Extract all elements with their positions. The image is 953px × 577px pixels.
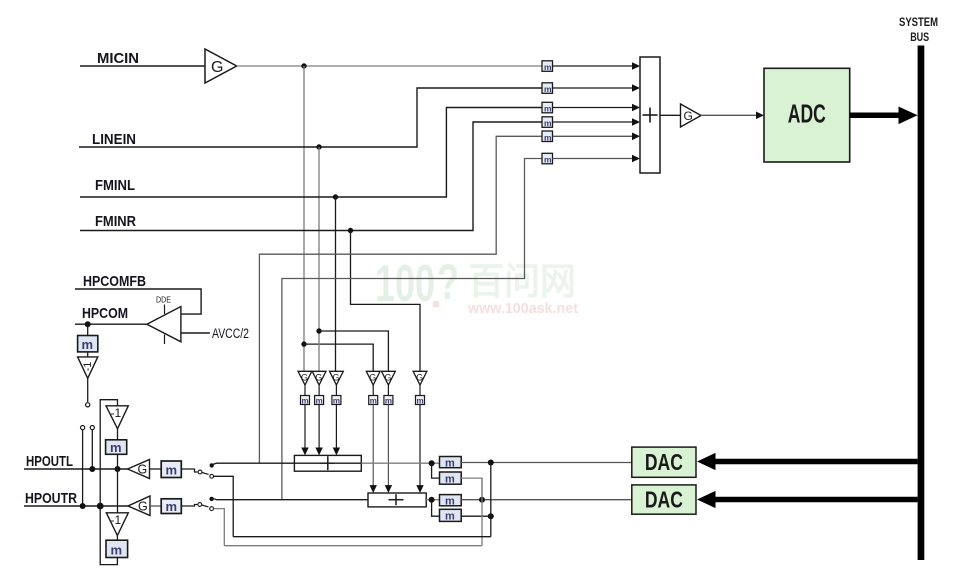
svg-text:m: m — [544, 104, 552, 114]
inverter -1 (to HPOUTL) — [106, 406, 128, 429]
svg-text:DDE: DDE — [156, 295, 171, 305]
svg-text:m: m — [544, 62, 552, 72]
wire m5 to summer — [553, 135, 635, 137]
node junction DAC-L lower — [488, 513, 494, 519]
attenuator t5 — [382, 371, 396, 385]
svg-text:m: m — [370, 397, 377, 406]
wire t3 chain — [335, 385, 337, 396]
attenuator t6 — [413, 371, 427, 385]
mute m4 (FMINR to ADC sum) — [542, 117, 553, 128]
svg-text:m: m — [445, 458, 455, 470]
node junction HPOUTR dots — [80, 503, 86, 509]
switch1 top contact — [210, 463, 214, 467]
svg-text:m: m — [111, 543, 123, 558]
wire FMINL vertical drop to t3 — [335, 197, 337, 371]
wire mute to HPOUTL — [117, 454, 119, 469]
svg-text:-1: -1 — [82, 362, 94, 372]
wire HPCOMFB feedback — [75, 289, 201, 314]
svg-text:HPOUTR: HPOUTR — [25, 490, 77, 507]
switch2 top contact — [209, 497, 213, 501]
svg-text:HPOUTL: HPOUTL — [26, 453, 73, 470]
bus arrow to DAC R — [697, 491, 918, 508]
wire AVCC/2 input — [181, 332, 210, 334]
node junction HPCOM tap — [85, 321, 91, 327]
svg-text:m: m — [166, 499, 178, 514]
wire mR to DAC-R — [461, 499, 632, 501]
mute t3 — [332, 396, 341, 406]
bus arrow ADC to SYSTEM BUS — [850, 107, 918, 125]
bus arrow to DAC L — [697, 453, 918, 470]
svg-text:G: G — [369, 373, 376, 383]
node junction HPOUTL dots — [89, 466, 95, 472]
mute m (cross R) — [106, 540, 128, 557]
wire HPCOM to mute — [87, 324, 89, 335]
wire mL to DAC-L — [461, 462, 632, 464]
inverter -1 (to HPOUTR) — [106, 513, 128, 536]
DAC R block — [632, 485, 696, 514]
wire G4 to mute — [150, 505, 161, 507]
wire DAC-R loopback to summer row6 — [282, 159, 542, 500]
svg-text:G: G — [416, 373, 423, 383]
switch1 blade — [202, 473, 209, 475]
svg-text:G: G — [315, 373, 322, 383]
attenuator t3 — [330, 371, 344, 385]
svg-text:FMINL: FMINL — [95, 177, 135, 194]
wire DAC-R bypass horizontal — [224, 545, 482, 547]
svg-text:FMINR: FMINR — [95, 213, 136, 230]
svg-text:百问网: 百问网 — [468, 261, 576, 302]
wire inverter to mute — [117, 429, 119, 440]
wire switch1 bypass to DAC-L node — [214, 476, 233, 536]
svg-text:m: m — [544, 118, 552, 128]
mute m6 (DAC-R to ADC sum) — [542, 153, 553, 164]
mute m (HPOUTL path) — [161, 461, 181, 478]
wire switch1 to mixer L — [213, 463, 295, 464]
node junction mixer R node — [429, 497, 435, 503]
amplifier G2 (ADC PGA) — [681, 104, 702, 127]
wire FMINR input — [80, 122, 542, 231]
wire SYSTEM BUS bar — [918, 46, 925, 561]
wire DAC-R node vertical — [481, 478, 483, 546]
wire mute to inverter — [87, 352, 89, 357]
mute t2 — [315, 396, 324, 406]
watermark — [375, 254, 578, 317]
svg-text:?: ? — [437, 254, 459, 310]
wire mute to switch2 pole — [181, 505, 197, 507]
svg-text:G: G — [684, 109, 693, 123]
mute m HPCOM — [78, 336, 98, 353]
wire MICIN input — [80, 65, 205, 67]
mute m1 (MICIN to ADC sum) — [542, 61, 553, 72]
wire mRL to DAC-L node — [461, 515, 491, 517]
node junction LINEIN tap — [316, 144, 321, 149]
wire FMINL input — [80, 108, 542, 198]
svg-text:LINEIN: LINEIN — [92, 131, 136, 148]
svg-text:m: m — [544, 84, 552, 94]
wire FMINR drop to t6 — [351, 231, 421, 372]
mute mR (DAC-R to R mixer) — [440, 495, 462, 508]
svg-text:-1: -1 — [111, 513, 122, 527]
svg-text:ADC: ADC — [788, 99, 826, 129]
wire mute loop back to HPOUTR — [100, 506, 117, 565]
wire m6 to summer — [553, 158, 635, 160]
svg-text:G: G — [385, 373, 392, 383]
wire m4 to summer — [553, 121, 635, 123]
node junction FMINR tap — [348, 228, 353, 233]
mute mRL (R to DAC-L line) — [440, 509, 462, 522]
svg-text:m: m — [445, 511, 455, 523]
mute mL (DAC-L to L mixer) — [440, 457, 462, 470]
wire HPOUTR — [24, 505, 128, 507]
wire switch2 to mixer R — [213, 498, 369, 500]
wire inverter to mute — [116, 536, 118, 541]
svg-text:DAC: DAC — [645, 449, 683, 475]
mute t5 — [384, 396, 393, 406]
svg-text:DAC: DAC — [645, 487, 683, 513]
node junction mixer L node — [429, 460, 435, 466]
svg-text:m: m — [333, 397, 340, 406]
switch2 pole — [198, 503, 202, 507]
svg-text:m: m — [82, 337, 94, 352]
svg-text:m: m — [417, 397, 424, 406]
switch1 pole — [198, 470, 202, 474]
wire G2 to ADC — [701, 114, 758, 116]
svg-text:G: G — [138, 463, 148, 477]
wire mixer R node to cross mute — [432, 500, 440, 517]
amplifier G3 (HPOUTL driver) — [128, 460, 150, 479]
amplifier G4 (HPOUTR driver) — [128, 496, 150, 516]
svg-text:BUS: BUS — [910, 30, 929, 44]
wire box1 to m-stack — [361, 462, 439, 464]
svg-text:HPCOM: HPCOM — [82, 305, 128, 322]
wire box2 to m-stack — [426, 499, 439, 501]
wire m3 to summer — [553, 107, 635, 109]
attenuator t1 — [298, 371, 312, 385]
mute mLR (L to DAC-R line) — [440, 472, 462, 486]
svg-text:m: m — [110, 440, 122, 455]
wire DAC-L loopback to summer row5 — [259, 136, 542, 463]
svg-text:MICIN: MICIN — [97, 50, 139, 67]
svg-text:m: m — [316, 397, 323, 406]
wire switch2 bypass to DAC-R node — [214, 509, 225, 546]
wire mLR to DAC-R node — [461, 478, 482, 500]
amplifier G1 (mic gain) — [205, 49, 237, 83]
mute m (HPOUTR path) — [161, 499, 181, 514]
switch2 blade — [202, 505, 209, 507]
wire switch to HPOUTR — [82, 430, 84, 506]
wire G3 to mute — [150, 468, 162, 470]
wire HPOUTL to bottom inverter chain — [117, 469, 119, 513]
switch throw contacts — [81, 426, 85, 430]
wire HPOUTL — [24, 468, 128, 470]
svg-text:AVCC/2: AVCC/2 — [212, 326, 249, 341]
wire box1 through line — [294, 462, 320, 464]
wire MICIN branch to t4 — [304, 344, 373, 371]
summer U2 (ADC input mixer) — [640, 57, 660, 173]
svg-text:www.100ask.net: www.100ask.net — [467, 300, 578, 317]
svg-text:m: m — [544, 132, 552, 142]
wire DAC-L bypass horizontal — [233, 536, 491, 538]
mute t6 — [416, 396, 425, 406]
svg-text:G: G — [138, 500, 148, 514]
node junction LINEIN branch — [316, 328, 321, 333]
node junction MICIN tap — [301, 63, 306, 68]
svg-text:G: G — [333, 373, 340, 383]
mute t4 — [369, 396, 378, 406]
attenuator t4 — [366, 371, 380, 385]
wire t5 chain — [387, 385, 389, 396]
svg-text:m: m — [544, 155, 552, 165]
wire inverter to switch pole — [87, 378, 89, 402]
switch2 bottom contact — [210, 507, 214, 511]
svg-text:m: m — [302, 397, 309, 406]
ADC block — [764, 68, 850, 162]
inverter -1 (HPCOM chain) — [78, 357, 98, 378]
wire t6 chain — [419, 385, 421, 396]
node junction DAC-L node — [488, 460, 494, 466]
node junction DAC-R node — [479, 497, 485, 503]
svg-text:HPCOMFB: HPCOMFB — [83, 273, 146, 290]
svg-text:G: G — [211, 59, 223, 76]
DAC L block — [632, 447, 696, 477]
wire HPOUTR to top inverter chain — [100, 400, 117, 506]
summer box2 (headphone R mixer) — [368, 493, 426, 507]
wire m1 to summer — [553, 65, 635, 67]
wire LINEIN vertical drop — [318, 147, 320, 371]
mute m3 (FMINL to ADC sum) — [542, 102, 553, 113]
wire LINEIN branch to t5 — [319, 331, 388, 371]
svg-text:SYSTEM: SYSTEM — [899, 15, 938, 29]
node junction FMINL tap — [333, 194, 338, 199]
wire t4 chain — [372, 385, 374, 396]
wire MICIN to summer row1 — [237, 65, 542, 67]
wire mixer L node to cross mute — [432, 463, 440, 478]
mute m (cross L) — [106, 440, 127, 455]
switch1 bottom contact — [210, 474, 214, 478]
wire MICIN vertical drop — [303, 66, 305, 371]
wire t1 chain — [304, 385, 306, 396]
svg-text:m: m — [445, 474, 455, 486]
wire HPCOM — [75, 323, 147, 325]
node junction MICIN branch — [301, 341, 306, 346]
wire LINEIN input — [79, 88, 542, 147]
svg-text:G: G — [301, 373, 308, 383]
wire summer to G2 — [660, 114, 681, 116]
wire DAC-L node vertical — [490, 463, 492, 537]
switch pole contact — [86, 403, 90, 407]
svg-text:m: m — [166, 463, 178, 478]
wire t2 chain — [318, 385, 320, 396]
svg-text:m: m — [445, 496, 455, 508]
wire mute to switch1 pole — [181, 469, 197, 472]
svg-text:m: m — [385, 397, 392, 406]
summer box1 (headphone L mixer) — [294, 455, 361, 471]
mute m2 (LINEIN to ADC sum) — [542, 83, 553, 94]
wire switch to HPOUTL — [91, 430, 93, 469]
op-amp DDE buffer — [147, 295, 181, 345]
mute t1 — [301, 396, 310, 406]
wire m2 to summer — [553, 87, 635, 89]
attenuator t2 — [312, 371, 326, 385]
svg-text:-1: -1 — [111, 406, 122, 420]
mute m5 (DAC-L to ADC sum) — [542, 131, 553, 142]
